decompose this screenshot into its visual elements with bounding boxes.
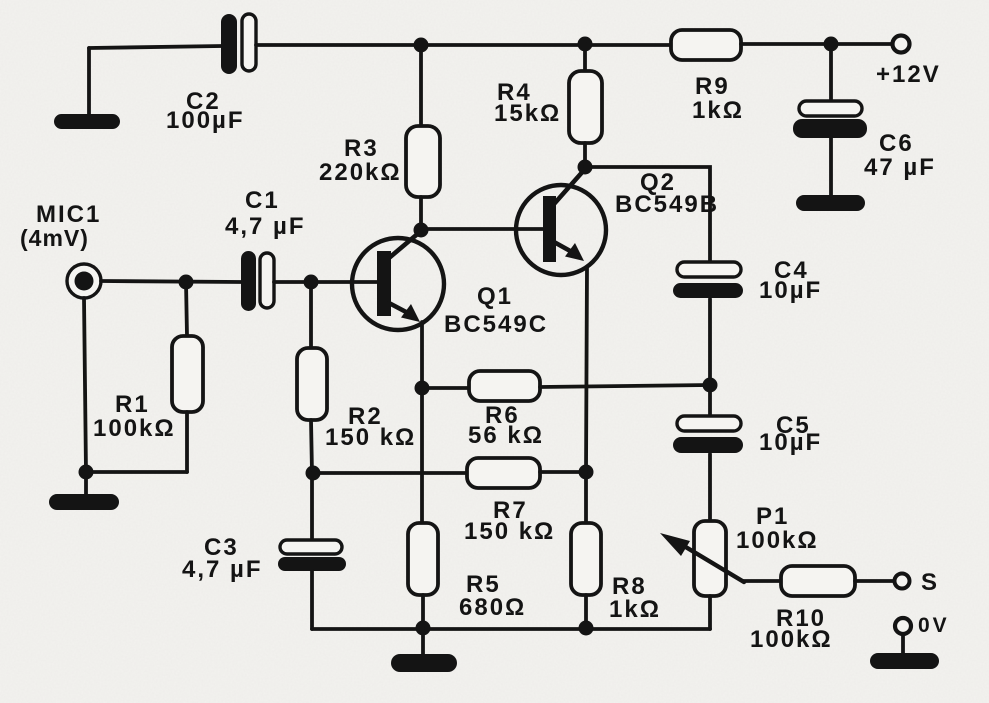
resistor R5 xyxy=(408,523,438,595)
svg-text:P1: P1 xyxy=(756,503,789,530)
terminal 0V xyxy=(895,618,911,634)
svg-text:10µF: 10µF xyxy=(759,429,822,456)
capacitor C4 xyxy=(673,262,743,298)
wire: C6 bottom lead xyxy=(829,138,833,196)
svg-text:S: S xyxy=(921,569,939,596)
wire: top-left ground riser xyxy=(87,48,91,116)
node: Q1 emitter / R6 junction xyxy=(415,381,430,396)
svg-text:680Ω: 680Ω xyxy=(459,594,526,621)
wire: R7 right lead xyxy=(540,470,586,474)
node: MIC ground junction xyxy=(79,465,94,480)
wire: Q2 emitter drop xyxy=(586,267,587,472)
wire: R1 bottom lead xyxy=(185,412,189,472)
svg-text:4,7 µF: 4,7 µF xyxy=(182,556,263,583)
capacitor C1 xyxy=(241,251,274,311)
wire: input rail to C2 xyxy=(89,46,222,48)
node: R8 ground junction xyxy=(579,621,594,636)
wire: R7 left lead xyxy=(313,471,467,475)
transistor Q2 xyxy=(516,169,606,275)
node: R4 top junction xyxy=(578,37,593,52)
ground (top left) xyxy=(54,114,120,129)
svg-text:100kΩ: 100kΩ xyxy=(736,527,819,554)
ground (0V) xyxy=(870,653,939,669)
wire: R3 top lead xyxy=(419,45,423,126)
resistor R6 xyxy=(469,371,540,401)
svg-text:220kΩ: 220kΩ xyxy=(319,159,402,186)
ground (R5) xyxy=(391,654,457,672)
svg-text:Q1: Q1 xyxy=(477,283,513,310)
wire: R4 bottom lead xyxy=(583,143,587,167)
wire: C3 top lead xyxy=(310,473,314,538)
wire: R8 bottom lead xyxy=(584,595,588,628)
wire: P1 wiper to R10 xyxy=(743,579,781,583)
svg-text:0V: 0V xyxy=(918,614,950,637)
microphone MIC1 xyxy=(67,264,101,298)
node: C4/C5/R6 junction xyxy=(703,378,718,393)
wire: ground stub (mic) xyxy=(84,472,88,496)
resistor R7 xyxy=(467,458,540,488)
wire: R1 top lead xyxy=(186,282,187,336)
wire: R8 top lead xyxy=(584,472,588,523)
resistor R1 xyxy=(172,336,203,412)
svg-text:C6: C6 xyxy=(879,130,914,157)
wire: R2 top lead xyxy=(309,282,313,348)
wire: R10 to S terminal xyxy=(855,579,894,583)
wire: C5 to P1 xyxy=(708,454,712,521)
wire: R2 bottom lead xyxy=(311,420,312,473)
capacitor C3 xyxy=(278,540,346,571)
resistor R2 xyxy=(297,348,327,420)
svg-text:150 kΩ: 150 kΩ xyxy=(325,424,416,451)
svg-text:100kΩ: 100kΩ xyxy=(93,415,176,442)
svg-text:4,7 µF: 4,7 µF xyxy=(225,213,306,240)
wire: R5 bottom lead xyxy=(421,595,425,628)
potentiometer P1 xyxy=(660,521,744,596)
wire: C1 to Q1 base xyxy=(274,280,377,284)
node: R5 ground junction xyxy=(416,621,431,636)
svg-text:R3: R3 xyxy=(344,135,379,162)
wire: bottom rail xyxy=(312,627,710,631)
wire: MIC1 ground riser xyxy=(84,298,86,472)
node: R2 top junction xyxy=(304,275,319,290)
svg-text:1kΩ: 1kΩ xyxy=(692,97,744,124)
transistor Q1 xyxy=(352,231,444,330)
wire: C3 bottom lead xyxy=(310,571,314,629)
wire: C4 to C5 xyxy=(708,299,712,416)
svg-text:MIC1: MIC1 xyxy=(36,201,101,228)
wire: R3 bottom lead xyxy=(419,197,423,230)
resistor R4 xyxy=(569,71,602,143)
node: Q1 collector junction xyxy=(414,223,429,238)
ground (MIC) xyxy=(49,494,119,510)
node: Q2 collector junction xyxy=(578,160,593,175)
node: C6 tap junction xyxy=(824,37,839,52)
svg-text:100kΩ: 100kΩ xyxy=(750,626,833,653)
wire: ground stub (R5) xyxy=(421,628,425,656)
svg-text:C1: C1 xyxy=(245,187,280,214)
wire: emitter node down to R5 xyxy=(420,388,424,523)
terminal S xyxy=(895,574,910,589)
svg-text:R9: R9 xyxy=(695,73,730,100)
ground (C6) xyxy=(796,195,865,211)
wire: R1 bottom to ground node xyxy=(86,470,187,474)
wire: MIC1 output to C1 xyxy=(101,281,241,282)
node: R3 top junction xyxy=(414,38,429,53)
wire: collector node to C4 xyxy=(585,167,710,262)
wire: supply rail C2 to R9 xyxy=(256,43,671,47)
capacitor C6 xyxy=(793,101,867,138)
capacitor C5 xyxy=(673,416,743,453)
svg-text:BC549C: BC549C xyxy=(444,311,548,338)
node: R2/C3/R7 junction xyxy=(306,466,321,481)
svg-text:100µF: 100µF xyxy=(166,107,245,134)
svg-text:BC549B: BC549B xyxy=(615,191,719,218)
svg-text:+12V: +12V xyxy=(876,61,941,88)
wire: P1 bottom lead xyxy=(708,596,712,629)
svg-text:150 kΩ: 150 kΩ xyxy=(464,518,555,545)
svg-text:R1: R1 xyxy=(115,391,150,418)
node: R1 top junction xyxy=(179,275,194,290)
svg-text:15kΩ: 15kΩ xyxy=(494,100,561,127)
wire: R4 top lead xyxy=(583,44,587,71)
svg-text:(4mV): (4mV) xyxy=(20,225,89,251)
resistor R3 xyxy=(406,126,440,197)
wire: R6 right lead to C4/C5 node xyxy=(540,385,710,387)
terminal +12V xyxy=(893,36,910,53)
svg-text:47 µF: 47 µF xyxy=(864,154,936,181)
svg-text:10µF: 10µF xyxy=(759,277,822,304)
resistor R10 xyxy=(781,566,855,596)
capacitor C2 xyxy=(221,14,256,74)
svg-text:56 kΩ: 56 kΩ xyxy=(468,422,544,449)
wire: Q1 collector node to Q2 base xyxy=(421,227,543,231)
wire: R6 left lead xyxy=(422,386,469,390)
wire: 0V ground stub xyxy=(901,634,905,655)
wire: R9 to +12V terminal xyxy=(741,42,891,46)
wire: C6 top lead xyxy=(829,44,833,101)
resistor R8 xyxy=(571,523,601,595)
wire: Q1 emitter drop xyxy=(420,322,424,388)
resistor R9 xyxy=(671,30,741,60)
node: Q2 emitter / R7 junction xyxy=(579,465,594,480)
svg-text:1kΩ: 1kΩ xyxy=(609,596,661,623)
